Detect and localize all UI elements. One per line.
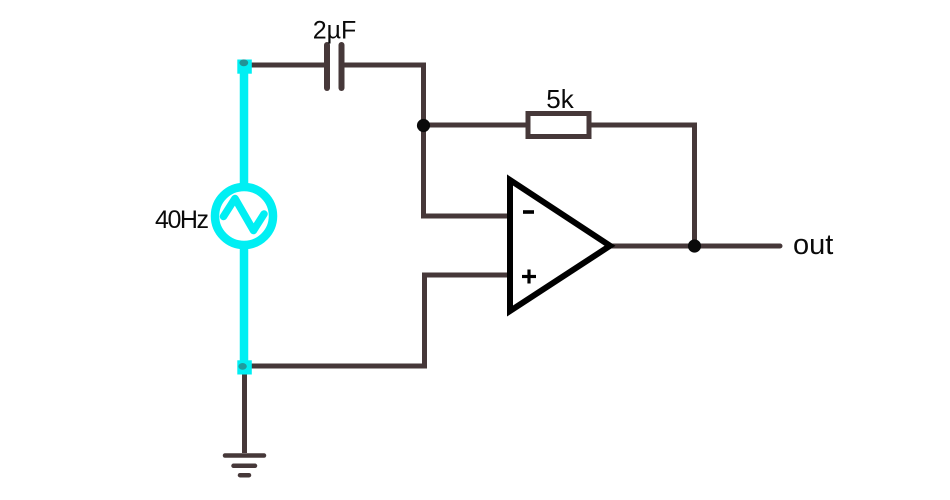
wire: op-amp output to right end [610,244,780,249]
svg-text:40Hz: 40Hz [155,206,209,234]
wire: node A right to resistor left lead [424,123,528,128]
terminal: bottom source node (cyan square) [237,360,252,374]
capacitor C1 [327,45,342,88]
wire: cyan source bottom lead [240,248,249,366]
pin mark under bottom terminal [238,363,246,370]
wire: top from source terminal to capacitor left plate [244,63,325,68]
node A junction dot [417,119,430,132]
svg-text:5k: 5k [546,84,574,114]
wire: bottom terminal down to ground [242,366,247,453]
terminal: top source node (cyan square) [237,60,252,74]
op-amp plus pin label [522,270,536,284]
wire: node A down then right to op-amp inverting input [424,126,511,217]
wire: cyan source top lead [240,65,249,185]
svg-text:2µF: 2µF [313,17,357,45]
resistor R1 [528,114,589,137]
ground [225,456,264,476]
op-amp U1 [510,180,610,311]
wire: capacitor right plate to top-right corner then down to node A [343,65,424,126]
wire: op-amp non-inverting input left then down then left to bottom terminal [244,275,510,366]
voltage source V1 triangle-wave symbol [224,199,265,231]
svg-text:out: out [793,229,833,261]
wire: resistor right lead to corner then down to output node [590,125,695,246]
pin mark under top terminal [239,59,248,66]
output node junction dot [688,239,701,252]
op-amp minus pin label [523,210,534,214]
voltage source V1 circle [215,187,273,245]
